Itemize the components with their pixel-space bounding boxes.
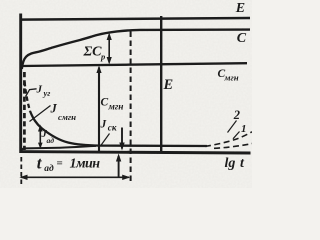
curve C (rising log curve merging into C line) — [22, 30, 250, 69]
svg-text:J: J — [36, 84, 43, 96]
leader 1 — [233, 132, 240, 139]
vertical line E (solid, x=161.6) — [160, 16, 162, 152]
arrowhead up, below-axis arrow — [116, 154, 121, 162]
line C_mgn (horizontal through middle) — [22, 63, 247, 66]
vertical axis (ordinate) — [19, 14, 22, 154]
svg-text:E: E — [163, 77, 174, 93]
arrowhead left, dimension line — [19, 175, 27, 180]
dashed curve 2 (bottom right) — [205, 132, 252, 147]
svg-text:ΣC: ΣC — [83, 45, 103, 60]
svg-text:J: J — [50, 102, 58, 116]
sigma C_p measure arrow (x=109) — [108, 35, 110, 63]
arrowhead up, J_ad top — [38, 125, 43, 132]
leader J_ug — [26, 89, 37, 97]
svg-text:уг: уг — [43, 89, 51, 98]
svg-text:lg: lg — [225, 156, 236, 171]
horizontal axis (abscissa) — [20, 152, 251, 153]
arrowhead up, sigma C_p top — [107, 33, 112, 41]
svg-text:C: C — [101, 97, 109, 109]
curve J_smgn (descending, flattens above axis) — [30, 111, 207, 146]
arrowhead down, J_sk — [119, 143, 124, 151]
svg-text:ск: ск — [108, 123, 117, 133]
dashed vertical at t=1min (x=130.6) — [130, 32, 132, 184]
leader J_sk — [101, 134, 110, 146]
dashed vertical below axis left — [20, 157, 22, 184]
line J residual level (bottom-left, above axis) — [21, 146, 96, 152]
svg-text:ад: ад — [44, 163, 54, 174]
line E (top horizontal) — [20, 18, 250, 20]
dashed curve 1 (bottom right) — [214, 144, 252, 149]
arrowhead up, C_mgn measure top — [96, 66, 101, 74]
svg-text:смгн: смгн — [58, 112, 76, 122]
leader J_smgn — [30, 106, 51, 122]
svg-text:1мин: 1мин — [70, 157, 101, 172]
arrowhead right, dimension line — [122, 175, 130, 180]
J_ad measure arrow (x=40.3) — [39, 127, 41, 148]
up arrow below axis (x=118.6) — [118, 156, 120, 177]
svg-text:мгн: мгн — [224, 73, 239, 83]
svg-text:=: = — [57, 158, 63, 170]
curve J_smgn dashed steep start — [25, 82, 30, 111]
leader 2 — [228, 121, 237, 133]
J_sk down arrow (x=122) — [121, 128, 123, 149]
arrowhead down, J_ad bottom — [38, 143, 43, 149]
svg-text:2: 2 — [233, 108, 240, 122]
dashed vertical at origin (left, heavy) — [23, 72, 26, 150]
svg-text:E: E — [235, 1, 245, 16]
svg-text:p: p — [100, 52, 105, 62]
svg-text:ад: ад — [47, 136, 55, 145]
svg-text:1: 1 — [241, 123, 247, 135]
svg-text:мгн: мгн — [108, 103, 124, 113]
svg-text:C: C — [237, 31, 247, 46]
arrowhead down, sigma C_p bottom — [107, 57, 112, 65]
t_ad dimension line — [21, 176, 129, 178]
vertical measure C_mgn (x=99) — [98, 68, 100, 152]
